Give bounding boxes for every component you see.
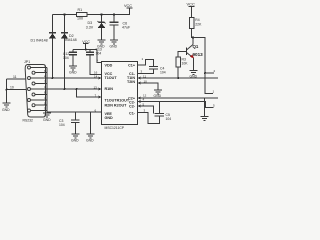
capacitor C6 bbox=[110, 22, 131, 30]
svg-text:GND: GND bbox=[71, 139, 79, 143]
svg-text:GND: GND bbox=[105, 116, 114, 120]
svg-text:R2IN R2OUT: R2IN R2OUT bbox=[105, 104, 128, 108]
connector JP1 DB9 bbox=[23, 60, 46, 122]
wire left ground drop bbox=[6, 79, 8, 103]
node junction left bbox=[6, 89, 8, 91]
node junction D2 wire bbox=[64, 88, 66, 90]
svg-text:GND: GND bbox=[190, 74, 198, 78]
svg-text:C1+: C1+ bbox=[128, 64, 135, 68]
zener diode D3 bbox=[86, 21, 106, 29]
IC U1 right pin numbers bbox=[141, 57, 148, 113]
node junction dots on rail bbox=[63, 13, 115, 15]
svg-text:R1IN: R1IN bbox=[105, 87, 114, 91]
svg-text:11: 11 bbox=[13, 75, 17, 79]
wire C13 to IC VCC pin16 bbox=[90, 55, 102, 75]
wire rail to VCC riser bbox=[129, 8, 131, 15]
ground under Q1 emitter bbox=[190, 71, 198, 75]
wire branch to right edge stub bbox=[205, 72, 214, 74]
resistor R1 bbox=[77, 8, 88, 20]
capacitor C5 bbox=[155, 113, 172, 121]
wire top rail bbox=[53, 14, 131, 16]
node junction on collector drop bbox=[204, 72, 206, 74]
svg-text:GND: GND bbox=[69, 70, 77, 74]
ground bottom right bbox=[201, 117, 209, 121]
svg-text:Q1: Q1 bbox=[193, 44, 199, 49]
svg-text:2: 2 bbox=[214, 69, 216, 73]
svg-text:104: 104 bbox=[160, 70, 166, 74]
svg-text:1: 1 bbox=[97, 58, 99, 62]
svg-text:104: 104 bbox=[166, 117, 172, 121]
wire header to IC VDD pin1 bbox=[97, 50, 102, 63]
wire C5 bottom loop to IC bbox=[138, 113, 160, 124]
svg-text:13: 13 bbox=[94, 85, 98, 89]
wire R3 bottom to T1IN rail bbox=[177, 67, 179, 78]
svg-text:100: 100 bbox=[77, 16, 83, 20]
wire DB9 left pin 10 bbox=[7, 89, 27, 91]
ground left of DB9 bbox=[3, 103, 11, 107]
svg-text:104: 104 bbox=[96, 52, 102, 56]
svg-text:IN4148: IN4148 bbox=[65, 38, 77, 42]
svg-text:MSC1211CP: MSC1211CP bbox=[105, 126, 125, 130]
wire DB9 to IC R1IN with branch bbox=[47, 89, 102, 97]
svg-text:C1-: C1- bbox=[129, 112, 136, 116]
svg-text:VDD: VDD bbox=[105, 64, 113, 68]
ground under C3 bbox=[71, 134, 79, 138]
capacitor C4 bbox=[149, 66, 166, 74]
svg-text:14: 14 bbox=[94, 74, 98, 78]
node junction D1 wire bbox=[52, 77, 54, 79]
DB9 pin circles column B bbox=[32, 71, 35, 107]
svg-text:GND: GND bbox=[2, 108, 10, 112]
svg-text:104: 104 bbox=[59, 123, 65, 127]
ground right of C3 bbox=[86, 134, 94, 138]
ground under C12 bbox=[69, 66, 77, 70]
wire ground riser bottom right bbox=[204, 98, 206, 117]
svg-text:T1OUT: T1OUT bbox=[105, 76, 118, 80]
svg-text:D1 IN4148: D1 IN4148 bbox=[31, 39, 48, 43]
ground under C6 bbox=[110, 40, 118, 44]
diode D2 bbox=[61, 33, 77, 42]
svg-text:R1: R1 bbox=[78, 8, 83, 12]
wire bypass cap header bbox=[73, 49, 97, 51]
capacitor C3 bbox=[59, 119, 80, 134]
wire D1 vertical bbox=[52, 15, 54, 79]
svg-text:VCC: VCC bbox=[187, 1, 196, 6]
svg-text:1: 1 bbox=[142, 57, 144, 61]
node junction on cap header bbox=[85, 49, 87, 51]
DB9 pin circles column A bbox=[28, 66, 31, 112]
wire DB9 tie bus bbox=[46, 68, 48, 114]
wire R4 bottom to collector node bbox=[192, 29, 194, 38]
capacitor C13 bbox=[86, 48, 102, 56]
svg-text:R4: R4 bbox=[195, 18, 199, 22]
op IC U1 MAX3232 box bbox=[102, 61, 138, 130]
IC U1 left pin labels bbox=[105, 64, 130, 120]
svg-text:GND: GND bbox=[110, 45, 118, 49]
power VCC top right of rail bbox=[124, 4, 133, 8]
node junction R3 rail bbox=[177, 77, 179, 79]
power VCC above R4 bbox=[187, 1, 196, 17]
svg-text:10K: 10K bbox=[182, 62, 189, 66]
svg-text:T1OUTR1OUT: T1OUTR1OUT bbox=[105, 98, 130, 102]
wire emitter to ground bbox=[193, 58, 195, 71]
svg-text:22K: 22K bbox=[195, 22, 202, 26]
svg-text:5: 5 bbox=[213, 104, 215, 108]
wire T1IN long rail bbox=[138, 77, 219, 79]
wire D2 vertical bbox=[64, 15, 66, 89]
svg-text:3.3V: 3.3V bbox=[86, 25, 94, 29]
wire base to R3 bbox=[178, 51, 186, 57]
svg-text:T2IN: T2IN bbox=[127, 80, 135, 84]
svg-text:JP1: JP1 bbox=[24, 60, 30, 64]
wire T2IN to ground bbox=[138, 83, 159, 90]
svg-text:1: 1 bbox=[213, 90, 215, 94]
svg-text:VCC: VCC bbox=[124, 4, 132, 8]
wire C4 bottom to C1- bbox=[138, 69, 154, 73]
svg-text:GND: GND bbox=[154, 94, 162, 98]
wire DB9 to IC T1OUT bbox=[47, 77, 102, 79]
wire collector node right and down bbox=[193, 38, 213, 94]
wire tap to ground right of C3 bbox=[89, 112, 91, 134]
wire C1+ staircase to C4 bbox=[138, 59, 154, 66]
wire C6 riser and ground lead bbox=[113, 15, 115, 22]
DB9 pin stubs bbox=[31, 68, 47, 111]
svg-text:C2-: C2- bbox=[129, 105, 136, 109]
ground T2IN bbox=[154, 90, 162, 94]
node junction R1IN branch bbox=[76, 88, 78, 90]
svg-text:10: 10 bbox=[10, 86, 14, 90]
transistor Q1 bbox=[187, 38, 204, 58]
wire DB9 pin5 to IC VEE row bbox=[47, 111, 102, 113]
svg-text:47uF: 47uF bbox=[122, 26, 131, 30]
svg-text:9013: 9013 bbox=[193, 52, 204, 57]
IC U1 left pin numbers bbox=[94, 58, 99, 112]
power VCC mid (above bypass caps) bbox=[82, 40, 90, 50]
resistor R3 bbox=[176, 57, 188, 67]
wire C2- short stub bbox=[138, 106, 154, 114]
svg-text:GND: GND bbox=[43, 118, 51, 122]
IC U1 right pin labels bbox=[127, 64, 136, 116]
IC pin arrows bbox=[99, 77, 141, 108]
wire R2OUT rail bbox=[138, 97, 219, 99]
diode D1 bbox=[31, 33, 57, 43]
capacitor C12 bbox=[63, 50, 77, 67]
node junction collector bbox=[192, 37, 194, 39]
ground under D3 bbox=[98, 40, 106, 44]
svg-text:GND: GND bbox=[86, 139, 94, 143]
wire D3 riser and ground lead bbox=[101, 15, 103, 40]
wire tap to C3 bbox=[74, 112, 76, 120]
DB9 pin numbers bbox=[44, 64, 46, 111]
ground under DB9 bus bbox=[43, 113, 51, 117]
wire C5 riser from C2+ line bbox=[158, 102, 160, 114]
wire C2+ line to corner stub bbox=[138, 102, 214, 108]
svg-text:104: 104 bbox=[63, 56, 69, 60]
svg-text:RS232: RS232 bbox=[23, 118, 33, 122]
wire DB9 left pin 11 bbox=[7, 78, 26, 80]
resistor R4 bbox=[190, 18, 203, 29]
